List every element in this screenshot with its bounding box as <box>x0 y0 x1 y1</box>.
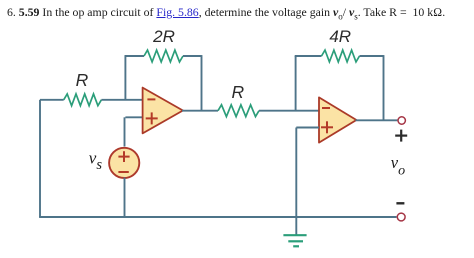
wire <box>125 55 145 57</box>
svg-text:R: R <box>231 82 244 102</box>
op-amp U2 <box>319 97 356 142</box>
wire <box>295 55 322 57</box>
wire <box>39 100 41 217</box>
wire <box>124 178 126 218</box>
source vs <box>109 148 139 178</box>
wire <box>295 128 297 235</box>
label minus polarity <box>396 202 404 204</box>
wire <box>356 119 398 121</box>
wire <box>360 55 384 57</box>
wire <box>40 99 64 101</box>
label plus polarity <box>395 130 407 142</box>
source vs minus <box>118 171 128 173</box>
op-amp U1 <box>143 88 183 134</box>
wire <box>295 56 297 111</box>
wire <box>39 216 396 218</box>
wire <box>383 55 385 120</box>
wire <box>124 56 126 100</box>
node output minus terminal <box>397 213 405 221</box>
op-amp U2 plus pin <box>321 121 333 133</box>
ground <box>283 235 306 246</box>
svg-text:2R: 2R <box>152 27 175 46</box>
resistor R1 <box>64 94 102 106</box>
wire <box>259 110 319 112</box>
resistor 4R <box>322 50 360 62</box>
resistor 2R <box>144 50 183 62</box>
wire <box>124 117 126 146</box>
svg-text:4R: 4R <box>329 27 351 46</box>
wire <box>125 116 142 118</box>
wire <box>201 55 203 111</box>
wire <box>101 99 142 101</box>
source vs plus <box>118 151 129 162</box>
wire <box>183 55 202 57</box>
svg-text:vo: vo <box>391 153 405 178</box>
wire <box>182 110 218 112</box>
op-amp U1 minus pin <box>147 98 155 100</box>
node output plus terminal <box>398 117 405 124</box>
op-amp U1 plus pin <box>146 112 158 124</box>
op-amp U2 minus pin <box>322 107 330 109</box>
svg-text:R: R <box>76 70 89 90</box>
resistor R2 <box>218 105 259 117</box>
svg-text:vs: vs <box>89 148 103 173</box>
wire <box>296 127 319 129</box>
